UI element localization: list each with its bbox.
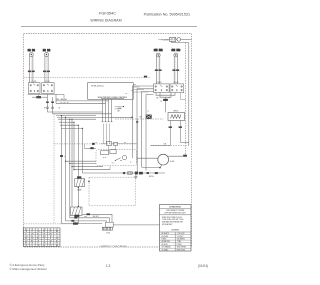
oven indicator light blob	[146, 115, 152, 119]
left bracket wire	[28, 93, 64, 95]
broil tick b	[147, 172, 149, 174]
jog dot y166.7	[71, 166, 72, 167]
rear divider dashed line	[24, 223, 78, 225]
surface unit RR	[154, 49, 163, 84]
motor circle	[158, 154, 169, 165]
svg-text:FGF354C: FGF354C	[99, 11, 116, 16]
right bracket outer	[156, 93, 175, 96]
svg-text:Y YELLOW: Y YELLOW	[177, 233, 185, 235]
broil tick c	[155, 172, 158, 174]
power cord ring	[177, 38, 181, 42]
svg-text:(01/04): (01/04)	[198, 264, 208, 268]
node motor feed	[159, 167, 161, 169]
wire motor feed	[142, 167, 161, 169]
left merge blob	[37, 96, 41, 98]
svg-text:BL: BL	[25, 238, 27, 240]
bottom wire tick C	[72, 220, 75, 221]
infinite switch 1	[29, 83, 41, 94]
wire color code table	[23, 228, 60, 247]
drop W 2 splice	[52, 107, 54, 109]
broil element line	[83, 172, 166, 174]
svg-text:F-30: F-30	[170, 161, 174, 163]
right merge blob	[163, 99, 167, 101]
svg-text:xx: xx	[130, 162, 132, 164]
cabinet dashed outline	[24, 34, 192, 248]
resistor leg tick 1	[169, 127, 172, 128]
power rail L1 dashed	[185, 43, 187, 156]
drop x56 to EOC wires	[55, 94, 57, 103]
wire x137.2 down to broil	[136, 119, 138, 173]
svg-text:WIRING DIAGRAM: WIRING DIAGRAM	[101, 245, 128, 249]
resistor zigzag	[171, 115, 182, 119]
svg-text:W/BK WH/BK: W/BK WH/BK	[177, 247, 186, 249]
fan junction dots	[61, 115, 62, 116]
jog y169.7	[74, 169, 110, 171]
wire node to motor	[160, 165, 162, 168]
drop W 1	[46, 94, 48, 112]
svg-text:W WHITE: W WHITE	[162, 236, 169, 238]
node oven left edge	[88, 181, 90, 183]
svg-text:xx xx: xx xx	[103, 157, 107, 159]
svg-text:GN GREEN: GN GREEN	[177, 239, 185, 241]
drop W 1 splice	[46, 107, 48, 109]
svg-text:P-20: P-20	[107, 233, 111, 235]
console divider dashed line	[24, 77, 151, 79]
cluster top stubs	[108, 146, 110, 151]
svg-text:WIRING DIAGRAM: WIRING DIAGRAM	[90, 18, 121, 22]
wire motor to rail L1	[167, 155, 183, 157]
dashed wire DB	[151, 145, 189, 147]
svg-text:xx: xx	[126, 93, 128, 95]
cluster box 1	[101, 151, 109, 155]
dashed center wire	[54, 143, 137, 145]
cluster box 2	[110, 150, 116, 154]
resistor box	[168, 113, 185, 121]
left bracket drop	[63, 94, 65, 101]
cluster circle	[122, 155, 126, 159]
svg-text:BL: BL	[31, 236, 33, 238]
wire y148.4 tick	[91, 147, 94, 149]
infinite switch 3	[154, 84, 170, 93]
infinite switch 4	[170, 84, 184, 93]
broil blob 2	[139, 172, 142, 174]
svg-text:© Main management division: © Main management division	[10, 267, 48, 271]
wire plug-cord	[176, 38, 177, 40]
svg-text:xx: xx	[148, 111, 150, 113]
broil blob 1	[135, 172, 138, 175]
svg-text:R/BK RD/BK: R/BK RD/BK	[177, 249, 186, 251]
electronic oven control box	[88, 83, 134, 100]
broil hatch block	[128, 172, 133, 175]
broil tick a	[123, 172, 125, 174]
svg-text:P6 BK-18 W-14: P6 BK-18 W-14	[91, 86, 103, 88]
surface unit RF	[28, 49, 35, 83]
svg-text:BL: BL	[37, 233, 39, 235]
svg-text:1-3: 1-3	[106, 264, 111, 268]
svg-text:BL: BL	[50, 243, 52, 245]
node dot y117	[131, 117, 133, 119]
drop W 1 tick	[46, 102, 48, 103]
ground drop	[135, 174, 137, 176]
wire terminal to rails	[113, 224, 189, 226]
EOC underline	[101, 98, 124, 100]
jog dot y163.5	[69, 163, 70, 164]
svg-text:xx: xx	[131, 90, 133, 92]
svg-text:BL BLUE: BL BLUE	[162, 244, 168, 246]
svg-text:Publication No. 5995421531: Publication No. 5995421531	[144, 13, 190, 17]
wire leg2 junction	[151, 145, 171, 147]
warning and legend box	[160, 205, 192, 252]
drop W 2 tick	[51, 102, 53, 103]
oven cavity dashed box	[89, 177, 135, 206]
caption backing	[101, 243, 126, 248]
svg-text:A WARNING: A WARNING	[169, 206, 181, 209]
tick on vertical x61.5	[60, 155, 63, 157]
wire bottom run	[62, 223, 103, 225]
left wire fan	[47, 112, 111, 224]
svg-text:BL: BL	[56, 240, 58, 242]
wire to EOC 1	[56, 100, 109, 102]
jog y166.7	[72, 166, 103, 168]
chassis ground	[134, 176, 137, 178]
wire leg to rail	[180, 141, 189, 143]
terminal upper box	[106, 222, 114, 227]
jog dot y161.2	[65, 161, 66, 162]
svg-text:BR BROWN: BR BROWN	[162, 241, 170, 243]
jog y161.2	[66, 160, 97, 162]
lower igniter box	[71, 207, 83, 216]
right bracket inner	[160, 93, 171, 98]
svg-text:BL: BL	[50, 229, 52, 231]
svg-text:BEFORE SERVICING UNIT: BEFORE SERVICING UNIT	[165, 213, 186, 215]
eoc right pin stubs	[133, 85, 148, 93]
bake igniter box	[75, 179, 85, 187]
svg-text:xx x: xx x	[112, 163, 115, 165]
jog dot y169.7	[73, 169, 74, 170]
left merge drop	[38, 94, 40, 96]
svg-text:-R- -W- -R-: -R- -W- -R-	[60, 103, 69, 105]
terminal comb block	[102, 227, 112, 230]
bake terminals	[77, 177, 81, 179]
cluster pre box 1	[107, 142, 112, 146]
resistor leg tick 2	[179, 127, 182, 128]
resistor legs	[169, 121, 171, 146]
rail L1 end tick	[183, 155, 186, 157]
power plug pins	[171, 38, 174, 40]
svg-text:V VIOLET: V VIOLET	[177, 236, 184, 238]
svg-text:LEGEND: LEGEND	[171, 229, 179, 231]
wire y148.4	[84, 147, 96, 149]
svg-text:xx: xx	[96, 142, 98, 144]
dashed center wire tick	[92, 143, 94, 145]
dashed wire y119	[115, 118, 163, 120]
wire node y117	[110, 116, 132, 118]
right merge wire	[165, 97, 167, 99]
EOC stub wires	[115, 107, 124, 109]
wire plug to rails	[172, 41, 189, 42]
svg-text:-BK- -BK- -W-: -BK- -BK- -W-	[56, 99, 67, 101]
drop triangle symbol	[136, 121, 139, 124]
cluster pre box 2	[114, 142, 118, 145]
power plug box	[170, 37, 176, 41]
surface unit LR	[172, 49, 181, 84]
wire switch4 to rail	[181, 93, 186, 100]
svg-text:BROIL: BROIL	[149, 176, 154, 178]
wires right switches left-down	[133, 86, 154, 171]
bottom feed wires	[66, 214, 113, 222]
power rail L2	[188, 43, 190, 146]
wire cord-border	[181, 38, 192, 40]
wire to EOC 2	[56, 102, 106, 104]
header rule	[21, 25, 197, 27]
lower element terminals	[78, 206, 79, 207]
surface unit LF	[43, 49, 50, 83]
jog y163.5	[70, 163, 96, 165]
left merge wire	[32, 96, 47, 98]
cluster switch	[116, 158, 121, 161]
bottom wire tick A	[87, 214, 90, 216]
EOC pin drops	[102, 99, 113, 122]
svg-text:CODE USED CIRCUIT CODE: CODE USED CIRCUIT CODE	[162, 219, 183, 221]
svg-text:BL: BL	[43, 245, 45, 247]
svg-text:P PINK: P PINK	[177, 244, 182, 246]
infinite switch 2	[42, 83, 54, 94]
svg-text:BK: BK	[157, 97, 159, 99]
svg-text:WIRE SPEC WIRE COLOR: WIRE SPEC WIRE COLOR	[162, 217, 183, 219]
junction blob bottom	[73, 223, 78, 225]
wire cluster to motor	[137, 157, 159, 159]
cluster feed wires	[101, 143, 107, 145]
lower element bottom blob	[75, 215, 80, 217]
console divider end tick	[144, 76, 147, 77]
bottom wire tick B	[75, 217, 78, 218]
EOC to cluster drops	[103, 124, 105, 144]
cluster dashed box	[96, 150, 137, 166]
drop W 2	[52, 97, 54, 114]
wire label left of plug	[158, 39, 171, 41]
svg-text:BL: BL	[43, 231, 45, 233]
